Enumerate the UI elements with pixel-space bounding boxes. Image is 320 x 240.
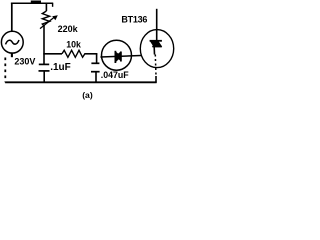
diac symbol right bar bbox=[120, 52, 122, 62]
potentiometer VR1 top lead bbox=[45, 3, 47, 11]
scan mark on top rail bbox=[31, 1, 41, 3]
triac lead to rail bbox=[155, 76, 157, 83]
top rail end tick bbox=[52, 3, 54, 7]
capacitor C1 .1uF bottom plate bbox=[39, 70, 50, 72]
triac bottom lead bbox=[153, 47, 155, 55]
triac up triangle bbox=[152, 40, 162, 47]
resistor R1 10k zigzag bbox=[62, 50, 85, 57]
potentiometer VR1 zigzag bbox=[42, 11, 49, 26]
triac bottom bar bbox=[152, 46, 161, 48]
diac symbol triangles bbox=[116, 51, 122, 62]
diac symbol left bar bbox=[114, 51, 116, 63]
potentiometer arrowhead bbox=[52, 15, 58, 20]
AC source sine symbol bbox=[6, 40, 20, 44]
capacitor C2 .047uF top plate bbox=[91, 62, 99, 64]
top rail wire bbox=[11, 2, 53, 4]
triac bottom dashed lead bbox=[154, 55, 157, 77]
capacitor C2 .047uF bottom plate bbox=[91, 71, 100, 73]
potentiometer wiper arrow bbox=[40, 17, 54, 28]
svg-text:.1uF: .1uF bbox=[50, 62, 71, 73]
diac D1 circle bbox=[102, 40, 132, 70]
wire left vertical bbox=[11, 3, 13, 32]
triac top bar bbox=[150, 40, 162, 42]
wire to 10k resistor bbox=[43, 53, 62, 55]
wire junction down bbox=[96, 54, 98, 64]
svg-text:220k: 220k bbox=[58, 24, 79, 34]
triac top lead bbox=[156, 9, 158, 42]
svg-text:230V: 230V bbox=[14, 56, 35, 66]
AC source bottom lead bbox=[11, 52, 13, 57]
triac down triangle bbox=[150, 41, 160, 48]
diac lead line bbox=[100, 56, 141, 58]
dotted return wire left bbox=[4, 58, 6, 83]
capacitor C1 .1uF top plate bbox=[39, 63, 49, 65]
svg-text:BT136: BT136 bbox=[121, 14, 147, 24]
wire pot to cap vertical bbox=[43, 25, 45, 64]
capacitor C1 bottom lead bbox=[43, 71, 45, 82]
AC source V1 circle bbox=[1, 31, 23, 53]
svg-text:10k: 10k bbox=[66, 39, 81, 49]
bottom rail wire bbox=[5, 81, 157, 83]
wire resistor to junction bbox=[84, 53, 97, 55]
svg-text:(a): (a) bbox=[82, 90, 93, 100]
triac Q1 circle bbox=[140, 30, 173, 68]
capacitor C2 bottom lead bbox=[95, 72, 97, 83]
svg-text:.047uF: .047uF bbox=[101, 70, 129, 80]
